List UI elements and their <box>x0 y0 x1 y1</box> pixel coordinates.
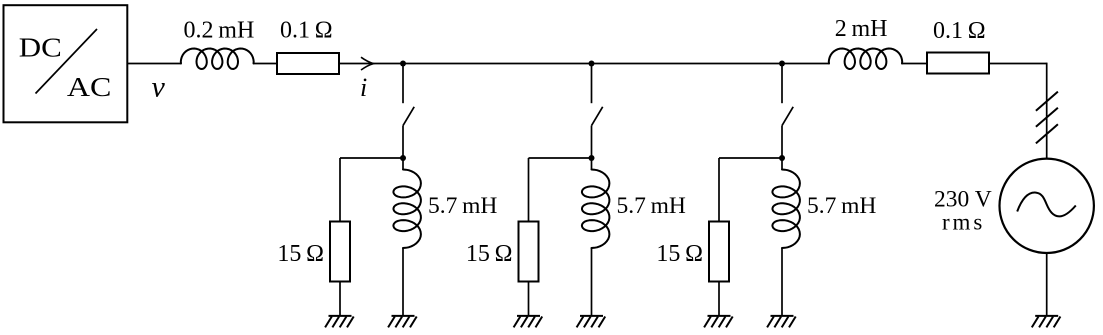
ground under L2 <box>388 316 417 328</box>
svg-text:2 mH: 2 mH <box>835 16 888 42</box>
wire junction to inductor L3 <box>591 158 593 170</box>
svg-text:5.7 mH: 5.7 mH <box>428 193 497 219</box>
resistor R2 15 ohm <box>330 222 350 282</box>
node C <box>779 61 785 67</box>
junction node C2 <box>779 155 785 161</box>
wire resistor R2 to ground <box>339 283 341 316</box>
wire junction to resistor column <box>529 157 592 159</box>
inductor L1 0.2 mH <box>181 49 254 70</box>
svg-text:i: i <box>360 73 367 102</box>
wire node A to switch S1 <box>402 64 404 104</box>
three-phase slash marks <box>1036 92 1058 144</box>
svg-text:15 Ω: 15 Ω <box>466 241 513 267</box>
svg-text:0.1 Ω: 0.1 Ω <box>280 18 333 44</box>
wire node B to switch S2 <box>591 64 593 104</box>
inductor L2 5.7 mH <box>393 170 421 249</box>
node B <box>589 61 595 67</box>
AC source V1 circle <box>999 159 1093 253</box>
wire R1 to node A with current arrow <box>340 63 403 65</box>
junction node A2 <box>400 155 406 161</box>
junction node B2 <box>589 155 595 161</box>
switch S2 blade <box>592 107 603 126</box>
wire junction to inductor L4 <box>781 158 783 170</box>
inductor L3 5.7 mH <box>582 170 610 249</box>
current arrow i <box>361 57 374 70</box>
AC source sine wave <box>1017 193 1076 217</box>
wire inductor L3 to ground <box>591 248 593 316</box>
wire L1 to R1 <box>254 63 277 65</box>
svg-text:5.7 mH: 5.7 mH <box>807 193 876 219</box>
wire corner down to source <box>1046 63 1048 159</box>
svg-text:15 Ω: 15 Ω <box>656 241 703 267</box>
wire node C to switch S3 <box>781 64 783 104</box>
ground under R2 <box>325 316 354 328</box>
ground under R3 <box>514 316 543 328</box>
DC/AC converter box M1 <box>4 5 128 122</box>
inductor L5 2 mH <box>829 49 902 70</box>
wire switch S2 to junction <box>591 126 593 158</box>
resistor R3 15 ohm <box>519 222 539 282</box>
resistor R1 0.1 ohm <box>277 53 339 74</box>
DC/AC box diagonal <box>36 29 98 94</box>
ground under L3 <box>577 316 606 328</box>
svg-text:0.2 mH: 0.2 mH <box>184 17 255 43</box>
ground under source <box>1032 316 1061 328</box>
ground under R4 <box>704 316 733 328</box>
bus wire node A to node C <box>403 63 782 65</box>
wire junction to resistor column <box>340 157 403 159</box>
switch S3 blade <box>782 107 793 126</box>
resistor R4 15 ohm <box>709 222 729 282</box>
wire R5 to corner <box>990 63 1047 65</box>
ground under L4 <box>767 316 796 328</box>
svg-text:15 Ω: 15 Ω <box>277 241 324 267</box>
svg-text:0.1 Ω: 0.1 Ω <box>933 18 986 44</box>
wire inductor L4 to ground <box>781 248 783 316</box>
svg-text:v: v <box>152 71 166 104</box>
wire L5 to R5 <box>902 63 926 65</box>
svg-text:DC: DC <box>19 31 62 62</box>
wire source to ground <box>1046 253 1048 316</box>
svg-text:rms: rms <box>942 209 985 234</box>
wire switch S1 to junction <box>402 126 404 158</box>
wire switch S3 to junction <box>781 126 783 158</box>
wire resistor R3 to ground <box>528 283 530 316</box>
wire node C to L5 <box>782 63 830 65</box>
wire inductor L2 to ground <box>402 248 404 316</box>
inductor L4 5.7 mH <box>772 170 800 249</box>
wire box to L1 <box>128 63 182 65</box>
wire junction to inductor L2 <box>402 158 404 170</box>
node A <box>400 61 406 67</box>
wire junction to resistor column <box>719 157 782 159</box>
wire resistor R4 to ground <box>718 283 720 316</box>
svg-text:AC: AC <box>67 71 112 102</box>
switch S1 blade <box>403 107 414 126</box>
svg-text:5.7 mH: 5.7 mH <box>617 193 686 219</box>
resistor R5 0.1 ohm <box>927 53 989 74</box>
